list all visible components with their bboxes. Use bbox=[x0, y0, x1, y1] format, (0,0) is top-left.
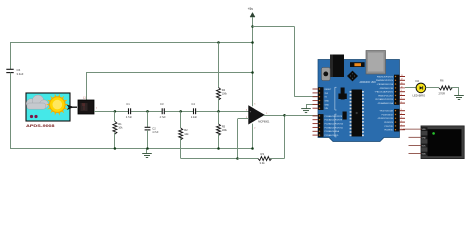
svg-text:1: 1 bbox=[96, 108, 97, 110]
svg-text:4.7uF: 4.7uF bbox=[152, 131, 159, 134]
svg-text:PB0/ICP1/CLKO: PB0/ICP1/CLKO bbox=[378, 95, 393, 97]
right pin headers bbox=[394, 75, 400, 105]
svg-text:9: 9 bbox=[401, 90, 402, 92]
wire top +5 rail bbox=[10, 42, 253, 44]
svg-text:R5: R5 bbox=[222, 124, 226, 128]
svg-text:GND: GND bbox=[422, 137, 427, 139]
svg-text:12: 12 bbox=[401, 79, 403, 81]
svg-text:100k: 100k bbox=[222, 129, 228, 132]
svg-text:PC5/ADC5/SCL: PC5/ADC5/SCL bbox=[325, 134, 340, 137]
LED D2 bbox=[416, 83, 426, 93]
svg-text:2: 2 bbox=[254, 127, 255, 129]
node R1 bottom bbox=[114, 147, 117, 150]
wire arduino gnd pin bbox=[306, 104, 318, 106]
svg-text:1: 1 bbox=[401, 124, 402, 126]
svg-text:2.2uF: 2.2uF bbox=[191, 116, 198, 119]
power led strip bbox=[350, 62, 365, 67]
wire left vertical to C6 bbox=[10, 42, 12, 69]
svg-text:5: 5 bbox=[254, 104, 255, 106]
svg-text:3.3uF: 3.3uF bbox=[17, 72, 24, 76]
resistor R5 bbox=[218, 111, 220, 124]
wire LED to R6 bbox=[426, 87, 439, 89]
regulator bbox=[341, 88, 345, 100]
capacitor C4 bbox=[194, 108, 196, 114]
svg-text:100k: 100k bbox=[222, 93, 228, 96]
svg-text:C3: C3 bbox=[160, 102, 164, 106]
svg-text:R6: R6 bbox=[440, 79, 444, 83]
node output bbox=[283, 114, 286, 117]
svg-text:R1: R1 bbox=[118, 122, 122, 126]
svg-text:13: 13 bbox=[401, 75, 403, 77]
svg-text:1: 1 bbox=[266, 113, 267, 115]
power +5V symbol bbox=[250, 13, 255, 18]
node C2 top bbox=[146, 110, 149, 113]
wire sensor +5 feed vertical bbox=[86, 73, 88, 101]
svg-text:R4: R4 bbox=[222, 88, 226, 92]
wire output feedback vertical bbox=[284, 115, 286, 158]
svg-text:-: - bbox=[250, 119, 251, 122]
wire arduino pin13 to LED bbox=[400, 87, 406, 89]
svg-text:~PD5/T1/OC0B: ~PD5/T1/OC0B bbox=[379, 111, 394, 113]
svg-text:GND: GND bbox=[325, 101, 330, 103]
arrow from widget to LDR body bbox=[67, 105, 75, 111]
wire sensor +5 feed horizontal bbox=[86, 72, 253, 74]
reset button bbox=[322, 68, 331, 81]
capacitor C3 bbox=[162, 108, 164, 114]
resistor R4 bbox=[218, 43, 220, 88]
LDR sensor body U1 bbox=[78, 100, 94, 114]
svg-text:~PD6/AIN0/OC0A: ~PD6/AIN0/OC0A bbox=[377, 102, 394, 105]
svg-text:~PB3/MOSI/OC2A: ~PB3/MOSI/OC2A bbox=[376, 83, 393, 86]
svg-text:4: 4 bbox=[401, 113, 402, 115]
wire R6 to ground bbox=[451, 87, 460, 89]
ground symbol LED bbox=[454, 96, 464, 100]
svg-text:PB5/SCK/PCINT5: PB5/SCK/PCINT5 bbox=[377, 76, 394, 78]
node R2 top bbox=[179, 110, 182, 113]
node bias mid bbox=[217, 110, 220, 113]
svg-text:11: 11 bbox=[401, 83, 403, 85]
resistor R3 bbox=[238, 158, 259, 160]
left pin headers bbox=[318, 87, 324, 110]
wire +5 vertical main bbox=[252, 27, 254, 107]
svg-text:R3: R3 bbox=[261, 152, 265, 156]
svg-text:10k: 10k bbox=[118, 126, 123, 130]
microcontroller DIP28 bbox=[352, 90, 363, 137]
svg-text:8: 8 bbox=[401, 94, 402, 96]
svg-text:C2: C2 bbox=[152, 127, 156, 131]
node feedback bbox=[236, 157, 239, 160]
svg-text:PC3/ADC3/PCINT11: PC3/ADC3/PCINT11 bbox=[325, 126, 344, 129]
wire output to arduino A0 bbox=[285, 115, 319, 117]
crystal diamond bbox=[347, 71, 358, 82]
node R5 bottom bbox=[217, 147, 220, 150]
svg-text:0: 0 bbox=[401, 128, 402, 130]
svg-text:5: 5 bbox=[401, 109, 402, 111]
capacitor C6 bbox=[6, 69, 13, 72]
wire signal line bbox=[94, 111, 128, 113]
node +5 branch bbox=[251, 25, 254, 28]
svg-text:6: 6 bbox=[401, 102, 402, 104]
node +5 sensor feed bbox=[251, 71, 254, 74]
resistor R1 bbox=[114, 111, 116, 121]
svg-text:R2: R2 bbox=[184, 128, 188, 132]
wire +5 branch to arduino bbox=[253, 26, 295, 28]
node bias divider on +5 rail bbox=[217, 41, 220, 44]
node V- ground bbox=[251, 147, 254, 150]
svg-text:4.7uF: 4.7uF bbox=[160, 116, 167, 119]
svg-text:MCP6001: MCP6001 bbox=[258, 121, 270, 124]
wire R2 bottom to feedback line bbox=[180, 138, 182, 158]
svg-text:+5v: +5v bbox=[248, 7, 254, 11]
usb connector bbox=[366, 51, 386, 75]
svg-text:APDS-9008: APDS-9008 bbox=[26, 124, 55, 128]
svg-text:12k: 12k bbox=[184, 132, 189, 136]
svg-text:C4: C4 bbox=[191, 102, 195, 106]
sensor APDS-9008 light widget bbox=[26, 93, 70, 121]
svg-text:4.7uF: 4.7uF bbox=[126, 116, 133, 119]
op-amp U2 MCP6001 bbox=[249, 106, 264, 124]
svg-text:PC0/ADC0/PCINT8: PC0/ADC0/PCINT8 bbox=[325, 115, 343, 118]
wire op-amp output bbox=[264, 115, 285, 117]
svg-text:PD4/T0/XCK: PD4/T0/XCK bbox=[382, 114, 394, 116]
svg-text:PC2/ADC2/PCINT10: PC2/ADC2/PCINT10 bbox=[325, 123, 344, 126]
node R1 top bbox=[114, 110, 117, 113]
resistor R6 bbox=[439, 86, 452, 90]
svg-text:PD1/TXD: PD1/TXD bbox=[385, 126, 394, 128]
node +5 top rail bbox=[251, 41, 254, 44]
svg-text:2: 2 bbox=[401, 121, 402, 123]
svg-text:3.3k: 3.3k bbox=[260, 161, 266, 165]
svg-text:~PB1/OC1A/PCINT1: ~PB1/OC1A/PCINT1 bbox=[374, 91, 394, 94]
ground symbol arduino bbox=[301, 109, 311, 113]
svg-text:PD0/RXD: PD0/RXD bbox=[384, 130, 393, 132]
node C2 bottom bbox=[146, 147, 149, 150]
svg-text:VDD: VDD bbox=[422, 129, 427, 131]
svg-text:VIN: VIN bbox=[325, 108, 329, 110]
svg-text:~PB2/SS/OC1B: ~PB2/SS/OC1B bbox=[379, 88, 394, 90]
svg-text:C1: C1 bbox=[126, 102, 130, 106]
power jack bbox=[330, 55, 344, 78]
Arduino Uno board bbox=[313, 51, 406, 142]
svg-text:PB4/MISO/PCINT4: PB4/MISO/PCINT4 bbox=[376, 80, 394, 82]
svg-text:PD2/INT0: PD2/INT0 bbox=[384, 122, 394, 124]
svg-text:C6: C6 bbox=[17, 68, 21, 72]
svg-text:GND: GND bbox=[325, 104, 330, 106]
resistor R2 bbox=[180, 111, 182, 128]
capacitor C1 bbox=[129, 108, 131, 114]
wire op-amp V- to ground rail bbox=[252, 124, 254, 149]
wire C6 bottom to ground rail bbox=[10, 73, 12, 148]
svg-text:7: 7 bbox=[401, 98, 402, 100]
svg-text:RESET: RESET bbox=[325, 89, 332, 91]
capacitor C2 bbox=[147, 111, 149, 127]
svg-text:D2: D2 bbox=[416, 79, 420, 83]
display module bbox=[403, 126, 465, 159]
svg-text:PC1/ADC1/PCINT9: PC1/ADC1/PCINT9 bbox=[325, 119, 343, 122]
svg-text:LED-BIRG: LED-BIRG bbox=[413, 93, 426, 97]
svg-text:3: 3 bbox=[401, 117, 402, 119]
svg-text:~PD3/INT1/OC2B: ~PD3/INT1/OC2B bbox=[377, 118, 394, 120]
svg-text:3: 3 bbox=[246, 110, 247, 112]
svg-text:PC4/ADC4/SDA: PC4/ADC4/SDA bbox=[325, 130, 340, 133]
wire inverting input bbox=[238, 118, 249, 120]
svg-text:PD7/AIN1/PCINT23: PD7/AIN1/PCINT23 bbox=[375, 98, 394, 101]
svg-text:ARDUINO UNO: ARDUINO UNO bbox=[360, 81, 377, 84]
svg-text:270R: 270R bbox=[439, 92, 445, 96]
ground symbol mid rail bbox=[146, 148, 148, 154]
wire ground rail bbox=[10, 148, 253, 150]
